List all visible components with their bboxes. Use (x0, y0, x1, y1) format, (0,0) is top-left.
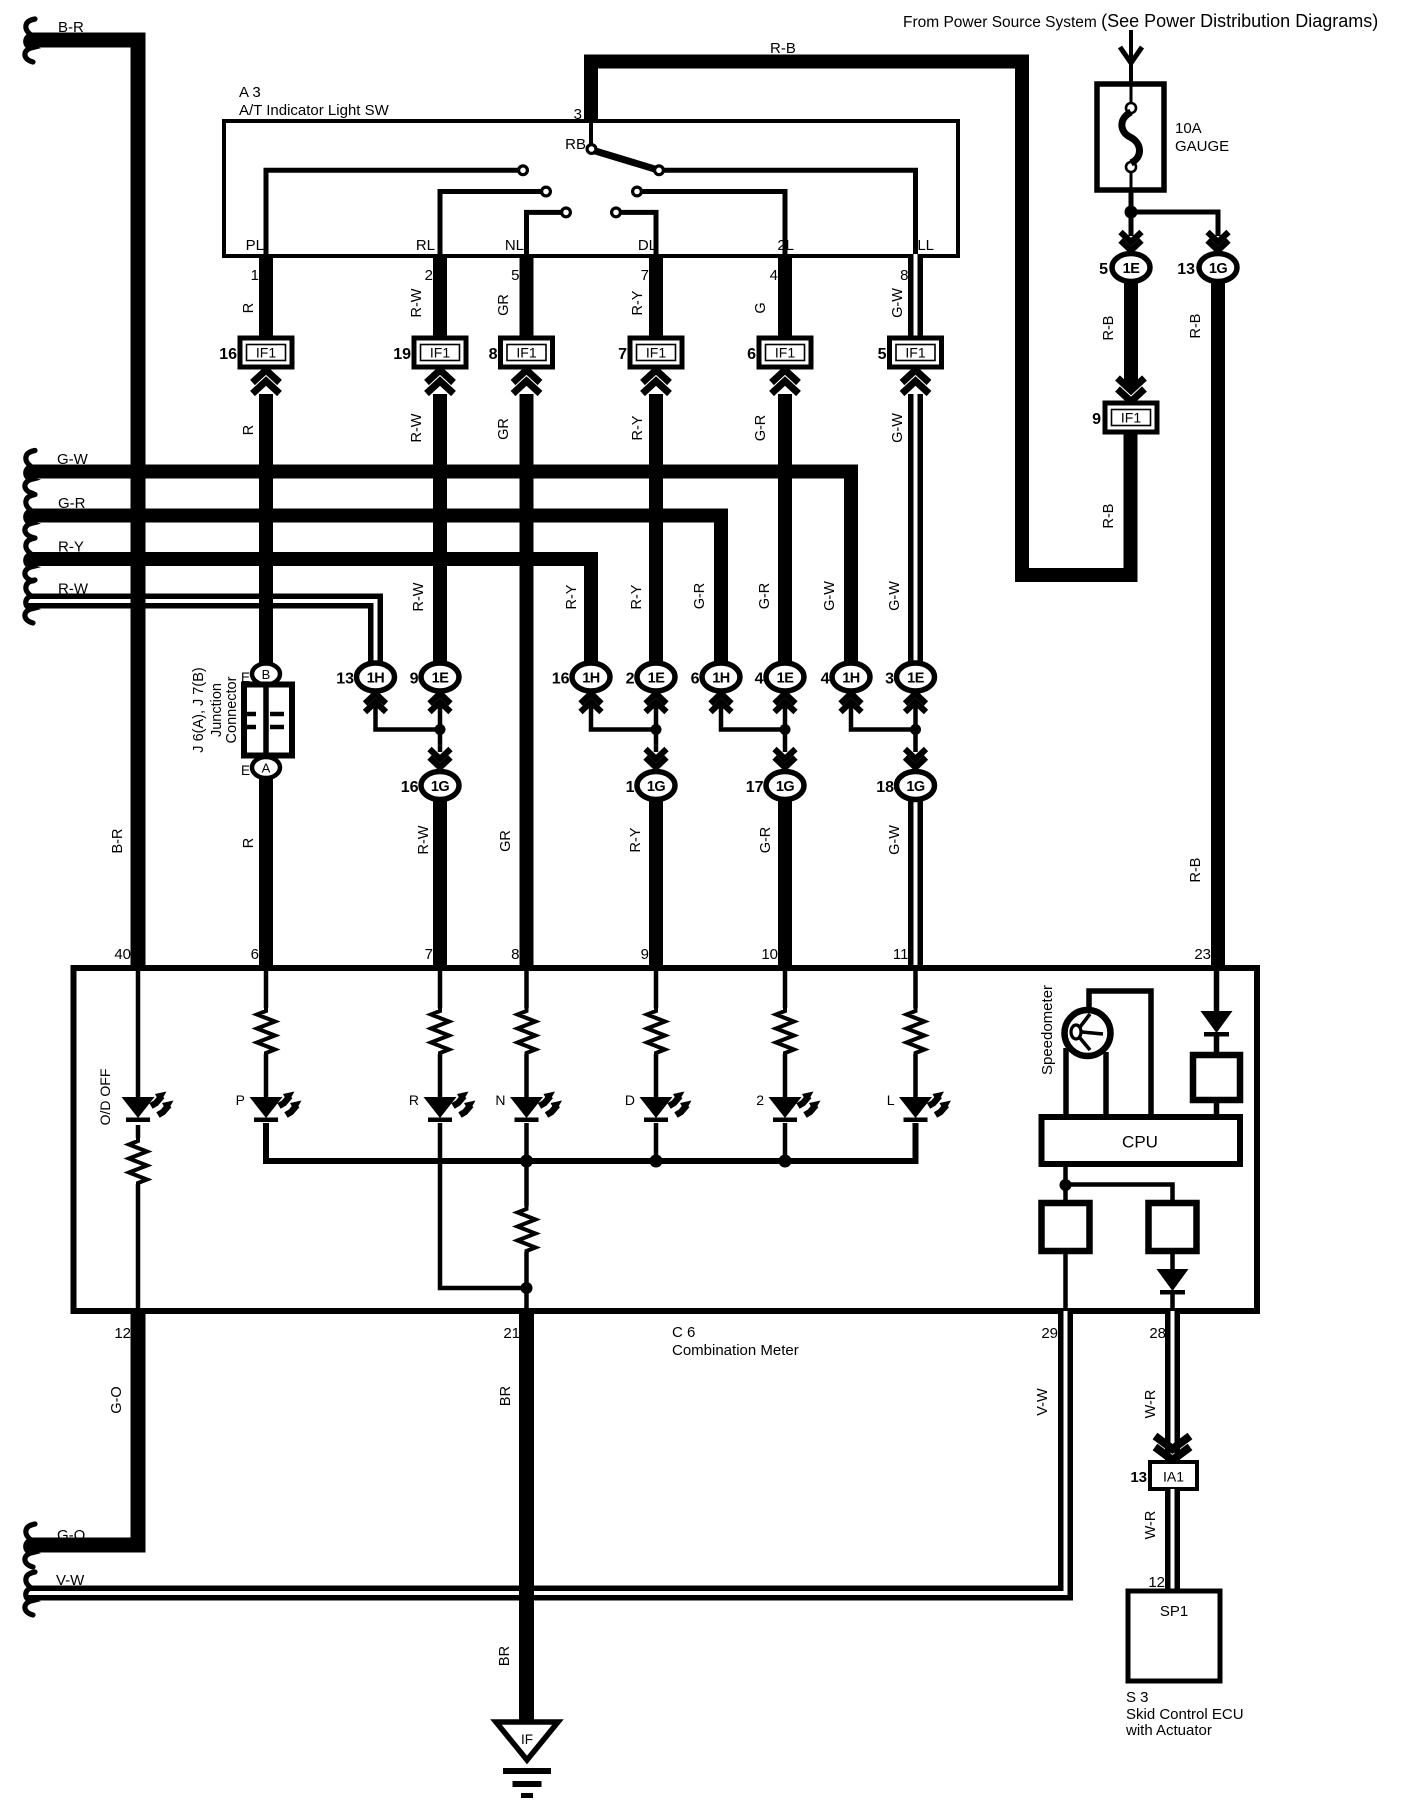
svg-text:R: R (409, 1092, 419, 1108)
label R-B (1G13 lower) (1188, 858, 1204, 883)
component CPU box (1042, 1117, 1241, 1164)
label LL (917, 237, 934, 254)
wire resistor to LED (D) (654, 1054, 659, 1097)
svg-text:A/T Indicator Light SW: A/T Indicator Light SW (239, 102, 390, 119)
wire R (IF1 16 to junction connector B) (259, 394, 273, 668)
label DL (638, 237, 657, 254)
connector 1E pin 3 (897, 663, 935, 691)
svg-text:P: P (236, 1092, 245, 1108)
wire switch contact PL to pin (266, 170, 519, 254)
label G-R (below IF1 6) (753, 415, 769, 442)
wire right output box to diode (1170, 1251, 1175, 1270)
wire switch contact LL to pin (663, 170, 916, 254)
label V-W (below pin 29) (1035, 1388, 1051, 1416)
label GR (above meter pin 8) (498, 830, 514, 852)
wire R-Y (switch DL to IF1 7) (649, 254, 663, 340)
arrow into 1G pin 1 (646, 749, 667, 768)
wire R-B loop (IF1 to A/T switch pin 3) (591, 62, 1131, 576)
component C6 combination meter box (74, 968, 1258, 1311)
component SP1 skid control ECU box (1128, 1591, 1220, 1681)
pin number 9 (1E) (410, 671, 419, 688)
svg-text:IF1: IF1 (775, 345, 795, 361)
svg-text:3: 3 (885, 671, 894, 688)
wire LED cathode bus (266, 1123, 916, 1161)
svg-text:5: 5 (878, 346, 887, 363)
svg-text:B: B (262, 667, 271, 682)
LED O/D OFF indicator (122, 1092, 174, 1123)
wire fuse to junction (1129, 190, 1134, 236)
label Skid Control ECU (1126, 1706, 1244, 1723)
svg-text:1E: 1E (1123, 261, 1141, 277)
svg-text:CPU: CPU (1122, 1133, 1158, 1152)
label 2 (LED) (756, 1092, 764, 1108)
arrow into 1G pin 18 (905, 749, 926, 768)
svg-text:R-B: R-B (1188, 314, 1204, 339)
wire from power source (1129, 30, 1133, 85)
svg-text:7: 7 (425, 946, 433, 963)
junction node below 1E 2 (651, 724, 662, 735)
svg-text:DL: DL (638, 237, 657, 254)
wire speedometer left to CPU (1063, 1048, 1069, 1117)
svg-text:Combination Meter: Combination Meter (672, 1342, 799, 1359)
wire 1H 6 / 1E 4 to 1G 17 (721, 706, 785, 752)
label C 6 (672, 1324, 695, 1341)
pin number 13 (1H) (336, 671, 354, 688)
connector 1H pin 4 (832, 663, 870, 691)
wire D LED to bus (654, 1123, 659, 1161)
arrow into 1E pin 5 (1121, 232, 1142, 251)
wire R-W (switch RL to IF1 19) (433, 254, 447, 340)
pin number 9 (meter top) (641, 946, 649, 963)
wire BR meter pin 21 to ground (519, 1311, 534, 1723)
label R-W (above 1E 9) (411, 582, 427, 611)
label Combination Meter (672, 1342, 799, 1359)
svg-text:RB: RB (565, 136, 586, 153)
svg-text:R-Y: R-Y (628, 827, 644, 852)
svg-text:1H: 1H (712, 671, 730, 687)
svg-text:3: 3 (574, 106, 582, 123)
svg-text:IF1: IF1 (646, 345, 666, 361)
connector 1H pin 13 (357, 663, 395, 691)
pin number 18 (1G) (876, 779, 894, 796)
pin number 16 (1G) (401, 779, 419, 796)
wire R-B 1G(13) down to meter pin 23 (1211, 270, 1225, 968)
pin number 4 (1H) (821, 671, 830, 688)
connector 1E pin 9 (421, 663, 459, 691)
svg-text:6: 6 (691, 671, 700, 688)
LED N indicator (510, 1092, 562, 1123)
svg-text:9: 9 (410, 671, 419, 688)
svg-text:8: 8 (900, 267, 908, 284)
wire B-R from other system (top left) (27, 40, 138, 968)
svg-text:6: 6 (747, 346, 756, 363)
svg-text:SP1: SP1 (1160, 1603, 1188, 1620)
svg-text:R-B: R-B (1101, 504, 1117, 529)
wire switch contact DL to pin (620, 212, 656, 254)
label R (below IF1 16) (241, 425, 257, 435)
svg-text:G-R: G-R (58, 495, 86, 512)
wire 1H 16 / 1E 2 to 1G 1 (591, 706, 656, 752)
label G-O (below pin 12) (109, 1386, 125, 1413)
svg-text:R-B: R-B (770, 40, 796, 57)
wire diode to driver box (1214, 1036, 1220, 1055)
brace R-W (25, 580, 35, 623)
pin number 16 (1H) (552, 671, 570, 688)
svg-text:B-R: B-R (110, 829, 126, 854)
label R-W (above IF1 19) (409, 288, 425, 317)
svg-text:16: 16 (552, 671, 570, 688)
wire 2 LED to bus (783, 1123, 788, 1161)
resistor meter output column (518, 1206, 536, 1254)
svg-text:5: 5 (1099, 261, 1108, 278)
svg-text:NL: NL (505, 237, 524, 254)
label L (LED) (887, 1092, 895, 1108)
wire G-R bus (27, 516, 721, 669)
label V-W (left exit) (56, 1572, 85, 1589)
LED 2 indicator (769, 1092, 821, 1123)
svg-text:Junction: Junction (209, 683, 225, 737)
svg-text:Speedometer: Speedometer (1039, 985, 1056, 1075)
svg-text:IF1: IF1 (430, 345, 450, 361)
wire 1H 4 / 1E 3 to 1G 18 (851, 706, 916, 752)
wire G-W (switch LL to IF1 5, outlined) (908, 254, 923, 340)
driver box (right) (1193, 1055, 1240, 1100)
svg-text:R-Y: R-Y (630, 415, 646, 440)
svg-text:G-R: G-R (692, 583, 708, 610)
wire R-Y (1G 1 to meter pin 9) (649, 795, 663, 968)
svg-text:GR: GR (496, 418, 512, 440)
svg-text:1: 1 (626, 779, 635, 796)
svg-text:R: R (241, 425, 257, 435)
label R-W (below IF1 19) (409, 413, 425, 442)
switch contact DL (612, 208, 621, 217)
switch contact RL (542, 187, 551, 196)
label W-R (below pin 28) (1143, 1390, 1159, 1419)
wire driver box to CPU (1214, 1100, 1220, 1117)
connector 1G pin 1 (637, 772, 675, 800)
wire meter pin to resistor (L) (913, 968, 918, 1008)
connector 1G pin 13 (1199, 254, 1237, 282)
wire G-W (IF1 5 to 1E 3, outlined) (908, 394, 923, 668)
wire meter pin to resistor (N) (524, 968, 529, 1008)
wire resistor to LED (P) (264, 1054, 269, 1097)
svg-text:2: 2 (626, 671, 635, 688)
label R-B (below 1G13) (1188, 314, 1204, 339)
label B-R (58, 19, 84, 36)
svg-text:R: R (241, 303, 257, 313)
svg-text:LL: LL (917, 237, 934, 254)
pin number 17 (1G) (746, 779, 764, 796)
label G (above IF1 6) (753, 302, 769, 313)
wire G-R (1G 17 to meter pin 10) (778, 795, 792, 968)
svg-text:1H: 1H (842, 671, 860, 687)
resistor L column (907, 1008, 925, 1056)
label G-W (above 1H 4) (822, 581, 838, 611)
wire R-W bus (outlined) (27, 601, 376, 668)
label R-Y (above IF1 7) (630, 290, 646, 315)
wire switch contact NL to pin (527, 212, 563, 254)
svg-text:1G: 1G (647, 779, 666, 795)
svg-text:1E: 1E (907, 671, 925, 687)
label G-W (above IF1 5) (890, 288, 906, 318)
wire CPU to output junction (1063, 1164, 1068, 1203)
svg-text:IF: IF (521, 1732, 533, 1747)
label R-W bus (58, 581, 89, 598)
svg-text:V-W: V-W (56, 1572, 85, 1589)
switch contact NL (562, 208, 571, 217)
svg-text:1E: 1E (777, 671, 795, 687)
svg-text:13: 13 (1177, 261, 1195, 278)
label G-R (above meter pin 10) (758, 827, 774, 854)
arrow into 1H pin 13 (365, 694, 386, 713)
arrow into IF1 pin 19 (427, 370, 454, 394)
svg-text:7: 7 (641, 267, 649, 284)
svg-text:PL: PL (246, 237, 264, 254)
pin 3 label (574, 106, 582, 123)
brace V-W (25, 1572, 35, 1615)
fuse 10A GAUGE box (1097, 84, 1164, 190)
switch contact LL (655, 166, 664, 175)
resistor R column (431, 1008, 449, 1056)
pin number 13 (IA1) (1130, 1469, 1147, 1486)
LED D indicator (640, 1092, 692, 1123)
junction node below 1E 9 (435, 724, 446, 735)
switch contact 2L (633, 187, 642, 196)
svg-text:R-W: R-W (409, 413, 425, 442)
label R-B (top) (770, 40, 796, 57)
wire switch contact 2L to pin (641, 192, 785, 255)
svg-text:21: 21 (503, 1325, 520, 1342)
wire G-W bus (27, 472, 851, 669)
svg-text:BR: BR (498, 1386, 514, 1406)
svg-text:5: 5 (511, 267, 519, 284)
arrow into 1E pin 2 (646, 694, 667, 713)
arrow into IF1 pin 9 (1118, 378, 1145, 402)
resistor P column (257, 1008, 275, 1056)
svg-text:S 3: S 3 (1126, 1689, 1149, 1706)
connector IF1 pin 19 (414, 338, 466, 367)
label PL (246, 237, 264, 254)
LED L indicator (899, 1092, 951, 1123)
pin number 1 (1G) (626, 779, 635, 796)
svg-text:G-R: G-R (758, 827, 774, 854)
svg-text:2: 2 (756, 1092, 764, 1108)
junction node lower (pin 21) (521, 1282, 533, 1294)
svg-text:RL: RL (416, 237, 435, 254)
junction node bus at D (650, 1155, 663, 1168)
svg-text:1H: 1H (367, 671, 385, 687)
label G-W (above 1E 3) (887, 581, 903, 611)
svg-text:17: 17 (746, 779, 764, 796)
pin number 7 (meter top) (425, 946, 433, 963)
svg-text:A: A (262, 761, 271, 776)
svg-text:L: L (887, 1092, 895, 1108)
output box right (1149, 1203, 1197, 1251)
connector IF1 pin 16 (240, 338, 292, 367)
svg-text:G-R: G-R (753, 415, 769, 442)
connector IF1 pin 7 (630, 338, 682, 367)
label O/D OFF (97, 1069, 113, 1126)
svg-text:A 3: A 3 (239, 84, 261, 101)
wire R-Y bus (27, 559, 591, 668)
arrowhead into fuse (1120, 47, 1142, 63)
connector 1E pin 4 (766, 663, 804, 691)
pin number 3 (1E) (885, 671, 894, 688)
switch pivot contact (587, 145, 596, 154)
label RB (switch common) (565, 136, 586, 153)
arrow into 1G pin 16 (430, 749, 451, 768)
svg-text:1H: 1H (582, 671, 600, 687)
wire speedometer right to CPU (1103, 1052, 1109, 1117)
wire meter pin to resistor (2) (783, 968, 788, 1008)
label R-Y bus (58, 539, 84, 556)
wire junction to 1G branch (1131, 212, 1218, 236)
svg-text:1G: 1G (431, 779, 450, 795)
wire junction to right output box (1066, 1185, 1173, 1204)
LED P indicator (250, 1092, 302, 1123)
svg-text:12: 12 (1148, 1574, 1165, 1591)
arrow into 1G pin 13 (1208, 232, 1229, 251)
svg-text:G-W: G-W (890, 413, 906, 443)
pin number 7 (switch 656) (641, 267, 649, 284)
label GR (above IF1 8) (496, 294, 512, 316)
svg-text:2: 2 (425, 267, 433, 284)
pin number 19 (IF1 row) (393, 346, 411, 363)
svg-text:10: 10 (761, 946, 778, 963)
svg-text:R-W: R-W (411, 582, 427, 611)
connector 1H pin 6 (702, 663, 740, 691)
wire R-W (IF1 19 to 1E 9) (433, 394, 447, 668)
svg-text:6: 6 (251, 946, 259, 963)
label with Actuator (1125, 1722, 1212, 1739)
wire V-W meter pin 29 to left exit (outlined) (27, 1311, 1066, 1593)
pin number 5 (IF1 row) (878, 346, 887, 363)
wire GR (IF1 8 to meter pin 8) (520, 394, 534, 968)
svg-text:19: 19 (393, 346, 411, 363)
wire left output box to meter pin 29 (1063, 1251, 1068, 1311)
connector 1G pin 16 (421, 772, 459, 800)
svg-text:R-B: R-B (1188, 858, 1204, 883)
pin number 11 (meter top) (893, 946, 909, 963)
pin number 5 (switch 526.5) (511, 267, 519, 284)
label BR (below pin 21) (498, 1386, 514, 1406)
wire meter pin to resistor (P) (264, 968, 269, 1008)
svg-text:13: 13 (1130, 1469, 1147, 1486)
svg-text:9: 9 (1092, 411, 1101, 428)
connector 1G pin 17 (766, 772, 804, 800)
svg-text:Skid Control ECU: Skid Control ECU (1126, 1706, 1244, 1723)
svg-text:IF1: IF1 (256, 345, 276, 361)
pin number 6 (meter top) (251, 946, 259, 963)
arrow into 1H pin 6 (711, 694, 732, 713)
brace G-O (25, 1524, 35, 1567)
pin number 6 (1H) (691, 671, 700, 688)
label S 3 (1126, 1689, 1149, 1706)
svg-text:8: 8 (489, 346, 498, 363)
brace G-W (25, 451, 35, 494)
label W-R (below IA1) (1143, 1511, 1159, 1540)
junction node bus at N (520, 1155, 533, 1168)
svg-text:G-W: G-W (890, 288, 906, 318)
arrow into 1E pin 4 (775, 694, 796, 713)
arrow into 1G pin 17 (775, 749, 796, 768)
pin number 4 (1E) (755, 671, 764, 688)
pin number 40 (meter top) (114, 946, 131, 963)
svg-text:9: 9 (641, 946, 649, 963)
svg-text:N: N (495, 1092, 505, 1108)
label E (B) (241, 670, 250, 685)
connector IF1 pin 8 (501, 338, 553, 367)
svg-text:R-Y: R-Y (630, 290, 646, 315)
svg-text:R-W: R-W (416, 825, 432, 854)
label R-B (below IF1 9) (1101, 504, 1117, 529)
svg-text:W-R: W-R (1143, 1511, 1159, 1540)
svg-text:with Actuator: with Actuator (1125, 1722, 1212, 1739)
svg-text:10A: 10A (1175, 120, 1202, 137)
svg-text:11: 11 (893, 946, 909, 963)
svg-text:G-R: G-R (757, 583, 773, 610)
svg-text:8: 8 (511, 946, 519, 963)
wire meter pin to resistor (D) (654, 968, 659, 1008)
wire O/D LED to resistor (136, 1125, 141, 1138)
label GR (below IF1 8) (496, 418, 512, 440)
svg-text:1G: 1G (776, 779, 795, 795)
label E (A) (241, 763, 250, 778)
connector IF1 pin 5 (890, 338, 942, 367)
wire resistor to LED (R) (438, 1054, 443, 1097)
svg-text:IA1: IA1 (1163, 1469, 1184, 1485)
svg-text:13: 13 (336, 671, 354, 688)
svg-text:1E: 1E (432, 671, 450, 687)
svg-text:R-Y: R-Y (564, 584, 580, 609)
arrow into IF1 pin 7 (643, 370, 670, 394)
output box left (1042, 1203, 1090, 1251)
pin number 4 (switch 785) (770, 267, 778, 284)
wire speedometer top loop to CPU (1089, 991, 1151, 1117)
label BR (above ground) (497, 1646, 513, 1666)
component J6(A) J7(B) junction connector box (244, 685, 292, 756)
arrow into IF1 pin 6 (772, 370, 799, 394)
svg-text:G-W: G-W (887, 825, 903, 855)
svg-text:GAUGE: GAUGE (1175, 138, 1229, 155)
pin number 13 (1G) (1177, 261, 1195, 278)
diode (pin 28 output) (1157, 1269, 1189, 1295)
connector IF1 pin 9 (1105, 403, 1157, 432)
wire W-R meter pin 28 to IA1 (outlined) (1165, 1311, 1180, 1462)
svg-text:4: 4 (770, 267, 778, 284)
svg-text:1G: 1G (1209, 261, 1228, 277)
wire diode to meter pin 28 (1170, 1294, 1175, 1311)
pin number 1 (switch 266) (251, 267, 259, 284)
svg-text:IF1: IF1 (905, 345, 925, 361)
pin number 7 (IF1 row) (618, 346, 627, 363)
svg-text:BR: BR (497, 1646, 513, 1666)
arrow into IF1 pin 5 (902, 370, 929, 394)
resistor O/D column (129, 1138, 147, 1186)
svg-text:1G: 1G (906, 779, 925, 795)
wire G (switch 2L to IF1 6) (778, 254, 792, 340)
label R (LED) (409, 1092, 419, 1108)
pin number 8 (IF1 row) (489, 346, 498, 363)
pin number 8 (switch 915.5) (900, 267, 908, 284)
label R-B (below 1E5) (1101, 316, 1117, 341)
label B-R (above meter pin 40) (110, 829, 126, 854)
svg-text:GR: GR (498, 830, 514, 852)
label R-Y (above 1H 16) (564, 584, 580, 609)
svg-text:R-Y: R-Y (629, 584, 645, 609)
label G-W bus (57, 451, 89, 468)
svg-text:G-W: G-W (822, 581, 838, 611)
